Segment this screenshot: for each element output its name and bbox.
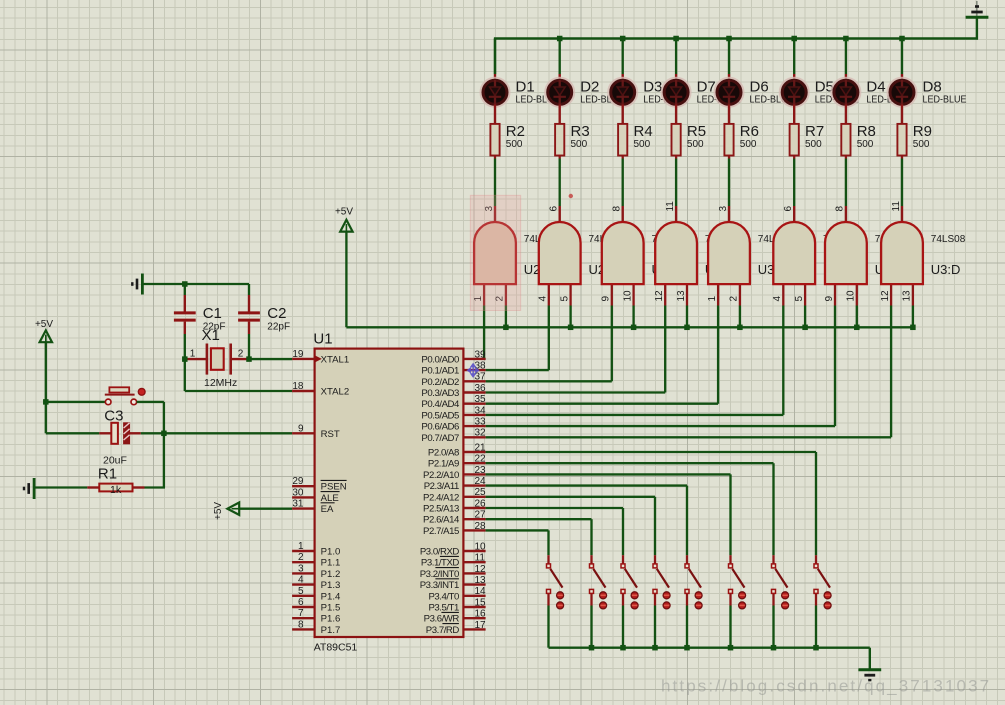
pin 26 stub (P2.5)	[463, 507, 485, 509]
label pin name PSEN	[321, 480, 347, 492]
svg-text:D4: D4	[866, 79, 885, 96]
svg-text:32: 32	[475, 428, 487, 439]
wire R8 to gate	[845, 156, 847, 207]
svg-text:EA: EA	[321, 504, 334, 515]
junction node input B col 5	[737, 325, 743, 331]
wire R3 to gate	[559, 156, 561, 207]
svg-text:23: 23	[475, 465, 487, 476]
wire XTAL2 net drop	[184, 359, 186, 391]
switch SW6	[729, 564, 745, 594]
svg-text:5: 5	[298, 586, 304, 597]
svg-text:6: 6	[298, 597, 304, 608]
svg-text:R4: R4	[634, 123, 653, 140]
junction node ground bus 5	[684, 645, 690, 651]
svg-text:R7: R7	[805, 123, 824, 140]
wire U3:A input A stub	[717, 284, 719, 306]
AND gate U2:D (74LS08)	[655, 222, 697, 284]
pin 22 stub (P2.1)	[463, 462, 485, 464]
svg-text:12: 12	[880, 290, 891, 302]
wire SW5 to ground bus	[686, 606, 688, 648]
svg-text:R8: R8	[857, 123, 876, 140]
label pin name P3.2/INT0	[420, 568, 459, 580]
wire U3:D input B to +5V bus	[912, 306, 914, 328]
wire RST to chip	[164, 432, 292, 434]
switch SW7 top pin	[772, 555, 774, 564]
svg-text:D2: D2	[580, 79, 599, 96]
wire top-right ground drop	[976, 17, 978, 39]
label pin name P3.3/INT1	[420, 579, 459, 591]
pin 14 stub (P3.4/T0)	[463, 595, 485, 597]
switch SW6 top pin	[729, 555, 731, 564]
svg-text:P2.1/A9: P2.1/A9	[428, 459, 459, 470]
svg-text:2: 2	[298, 552, 304, 563]
pin 6 stub (P1.5)	[292, 606, 315, 608]
svg-text:+5V: +5V	[35, 319, 53, 330]
svg-text:1: 1	[707, 296, 718, 302]
svg-text:5: 5	[794, 296, 805, 302]
wire D4 to R8	[845, 105, 847, 125]
junction node input B col 3	[631, 325, 637, 331]
ground (bottom right)	[858, 670, 881, 680]
wire SW2 bottom pin	[590, 594, 592, 606]
pin 37 stub (P0.2)	[463, 380, 485, 382]
wire gate U2 output pin stub	[675, 206, 677, 223]
pin 1 stub (P1.0)	[292, 550, 315, 552]
svg-text:500: 500	[571, 139, 588, 150]
resistor R2	[490, 124, 499, 156]
svg-text:6: 6	[783, 206, 794, 212]
wire P2.4 to switch 4	[486, 497, 655, 555]
switch SW1	[547, 564, 563, 594]
resistor R9	[897, 124, 906, 156]
svg-text:22pF: 22pF	[267, 322, 290, 333]
wire D3 to R4	[622, 105, 624, 125]
wire U2:B input A stub	[548, 284, 550, 306]
cursor (move icon)	[468, 364, 479, 377]
svg-text:R5: R5	[687, 123, 706, 140]
svg-text:P3.7/RD: P3.7/RD	[426, 625, 460, 636]
wire U2:A input B to +5V bus	[505, 306, 507, 328]
junction node LED bus col 5	[726, 36, 732, 42]
junction node LED bus col 3	[620, 36, 626, 42]
capacitor C2	[238, 313, 260, 320]
pin 2 stub (P1.1)	[292, 561, 315, 563]
switch SW3	[621, 564, 637, 594]
wire button to RST node	[137, 402, 164, 488]
svg-text:C2: C2	[267, 305, 286, 322]
svg-text:P2.4/A12: P2.4/A12	[423, 492, 459, 503]
svg-text:39: 39	[475, 349, 487, 360]
svg-text:D1: D1	[516, 79, 535, 96]
svg-text:3: 3	[298, 563, 304, 574]
wire +5V down	[45, 342, 47, 433]
actuator markers SW5	[695, 592, 702, 609]
svg-text:13: 13	[676, 290, 687, 302]
svg-text:33: 33	[475, 417, 487, 428]
svg-text:X1: X1	[202, 327, 220, 344]
wire SW6 bottom pin	[729, 594, 731, 606]
svg-text:https://blog.csdn.net/qq_37131: https://blog.csdn.net/qq_37131037	[661, 677, 991, 696]
svg-text:LED-BLUE: LED-BLUE	[923, 94, 967, 105]
wire ground to C1/C2 top	[142, 283, 249, 285]
svg-text:P1.4: P1.4	[321, 591, 341, 602]
LED D5	[780, 78, 809, 107]
svg-text:D7: D7	[697, 79, 716, 96]
AND gate U3:C (74LS08)	[825, 222, 867, 284]
svg-text:9: 9	[601, 296, 612, 302]
wire U2:C input B stub	[632, 284, 634, 306]
svg-text:6: 6	[549, 206, 560, 212]
switch SW4	[653, 564, 669, 594]
wire SW4 bottom pin	[654, 594, 656, 606]
wire bus to D7	[675, 39, 677, 81]
wire U3:D input A stub	[890, 284, 892, 306]
wire R5 to gate	[675, 156, 677, 207]
junction node C1 top	[182, 281, 188, 287]
pin 3 stub (P1.2)	[292, 572, 315, 574]
wire SW1 bottom pin	[547, 594, 549, 606]
wire gate U2 output pin stub	[559, 206, 561, 223]
wire P2.7 to switch 1	[486, 530, 549, 555]
wire U3:C input B stub	[856, 284, 858, 306]
pin 7 stub (P1.6)	[292, 617, 315, 619]
wire R9 to gate	[901, 156, 903, 207]
LED D4	[832, 78, 861, 107]
junction node LED bus col 4	[673, 36, 679, 42]
pin 18 stub (XTAL2)	[292, 390, 315, 392]
pushbutton RESET	[105, 387, 137, 404]
svg-text:P1.6: P1.6	[321, 614, 341, 625]
wire U3:B input A stub	[782, 284, 784, 306]
svg-text:P3.0/RXD: P3.0/RXD	[420, 547, 460, 558]
wire U3:B input B to +5V bus	[804, 306, 806, 328]
wire U2:D input B to +5V bus	[686, 306, 688, 328]
svg-text:29: 29	[292, 476, 304, 487]
pin 31 stub (EA)	[292, 507, 315, 509]
power +5V (gate bus)	[335, 206, 353, 231]
svg-text:12: 12	[475, 564, 487, 575]
pin 34 stub (P0.5)	[463, 414, 485, 416]
junction node button left	[43, 399, 49, 405]
wire U3:C input A stub	[834, 284, 836, 306]
svg-text:2: 2	[238, 349, 244, 360]
pin 30 stub (ALE)	[292, 496, 315, 498]
wire gate U3 output pin stub	[845, 206, 847, 223]
wire U2:D input B stub	[686, 284, 688, 306]
wire U2:B input B stub	[569, 284, 571, 306]
svg-text:P0.4/AD4: P0.4/AD4	[421, 399, 460, 410]
svg-text:U3:D: U3:D	[931, 262, 961, 277]
wire bus to D2	[559, 39, 561, 81]
wire gate U3 output pin stub	[728, 206, 730, 223]
svg-text:500: 500	[506, 139, 523, 150]
wire C2 bottom pin	[248, 322, 250, 360]
svg-text:36: 36	[475, 383, 487, 394]
svg-text:P0.2/AD2: P0.2/AD2	[421, 377, 459, 388]
junction node input B col 4	[684, 325, 690, 331]
LED D7	[662, 78, 691, 107]
svg-text:11: 11	[475, 553, 486, 564]
wire SW7 bottom pin	[772, 594, 774, 606]
pin 11 stub (P3.1/TXD)	[463, 561, 485, 563]
svg-text:XTAL2: XTAL2	[321, 387, 350, 398]
wire to XTAL2 pin	[185, 390, 292, 392]
pin 25 stub (P2.4)	[463, 496, 485, 498]
wire D7 to R5	[675, 105, 677, 125]
svg-text:13: 13	[902, 290, 913, 302]
pin 27 stub (P2.6)	[463, 518, 485, 520]
svg-text:P3.3/INT1: P3.3/INT1	[420, 580, 459, 591]
actuator markers SW7	[782, 592, 789, 609]
pin 24 stub (P2.3)	[463, 484, 485, 486]
svg-text:P2.0/A8: P2.0/A8	[428, 448, 459, 459]
svg-text:500: 500	[740, 139, 757, 150]
wire U3:C input B to +5V bus	[856, 306, 858, 328]
wire U3:C input A to P0.6	[486, 306, 835, 427]
junction node ground bus 4	[652, 645, 658, 651]
label pin name P3.6/WR	[424, 612, 460, 624]
junction node ground bus 8	[813, 645, 819, 651]
junction node input B col 8	[910, 325, 916, 331]
junction node LED bus col 7	[843, 36, 849, 42]
svg-text:P1.7: P1.7	[321, 625, 341, 636]
wire top bus left drop	[494, 39, 496, 75]
wire +5V drop to bus	[345, 232, 347, 328]
junction node ground bus 6	[728, 645, 734, 651]
svg-text:P0.6/AD6: P0.6/AD6	[421, 422, 459, 433]
svg-text:34: 34	[475, 405, 487, 416]
wire gate U2 output pin stub	[494, 206, 496, 223]
svg-text:1: 1	[298, 541, 304, 552]
capacitor C1	[174, 313, 196, 320]
ground (top right)	[966, 1, 989, 17]
AND gate U2:A (74LS08)	[474, 222, 516, 284]
resistor R8	[841, 124, 850, 156]
wire SW1 to ground bus	[547, 606, 549, 648]
svg-text:35: 35	[475, 394, 487, 405]
svg-text:8: 8	[835, 206, 846, 212]
wire gate U3 output pin stub	[901, 206, 903, 223]
pin 16 stub (P3.6/WR)	[463, 617, 485, 619]
wire R4 to gate	[622, 156, 624, 207]
wire D5 to R7	[793, 105, 795, 125]
svg-text:8: 8	[612, 206, 623, 212]
pin 12 stub (P3.2/INT0)	[463, 572, 485, 574]
AND gate U3:A (74LS08)	[708, 222, 750, 284]
actuator markers SW2	[600, 592, 607, 609]
ground (left, near C1)	[132, 274, 142, 295]
switch SW8	[814, 564, 830, 594]
label pin name ALE	[321, 492, 340, 504]
wire top LED bus	[494, 37, 978, 39]
power +5V (EA)	[213, 502, 239, 520]
wire ground bus drop	[869, 648, 871, 670]
pin 19 stub (XTAL1)	[292, 358, 315, 360]
svg-text:7: 7	[298, 608, 304, 619]
svg-text:12MHz: 12MHz	[204, 377, 237, 389]
AND gate U3:B (74LS08)	[773, 222, 815, 284]
pin 39 stub (P0.0)	[463, 358, 485, 360]
switch SW4 top pin	[654, 555, 656, 564]
junction node ground bus 2	[589, 645, 595, 651]
svg-text:R9: R9	[913, 123, 932, 140]
wire U3:D input A to P0.7	[486, 306, 891, 438]
wire U2:A input A to P0.0	[484, 306, 486, 359]
wire U3:D input B stub	[912, 284, 914, 306]
pin 28 stub (P2.7)	[463, 529, 485, 531]
wire C3 to RST junction	[141, 432, 164, 434]
pin 8 stub (P1.7)	[292, 628, 315, 630]
wire R6 to gate	[728, 156, 730, 207]
wire bus to D6	[728, 39, 730, 81]
svg-text:1k: 1k	[110, 484, 122, 496]
resistor R1 (1k)	[87, 484, 144, 492]
junction node input B col 2	[568, 325, 574, 331]
wire X1 pin2 to XTAL1	[249, 358, 292, 360]
wire +5V to EA	[239, 508, 292, 510]
LED D8	[888, 78, 917, 107]
actuator marker (red) on button	[138, 388, 145, 395]
svg-text:10: 10	[622, 290, 633, 302]
wire bus to D3	[622, 39, 624, 81]
svg-text:22: 22	[475, 454, 487, 465]
pin 17 stub (P3.7/RD)	[463, 628, 485, 630]
svg-text:P2.2/A10: P2.2/A10	[423, 470, 459, 481]
pin 5 stub (P1.4)	[292, 595, 315, 597]
svg-text:4: 4	[298, 575, 304, 586]
svg-text:P0.7/AD7: P0.7/AD7	[421, 433, 459, 444]
resistor R6	[724, 124, 733, 156]
selection highlight on gate U2:A	[470, 195, 520, 310]
wire C2 top pin	[248, 284, 250, 312]
svg-text:1: 1	[190, 349, 196, 360]
svg-text:500: 500	[857, 139, 874, 150]
svg-text:16: 16	[475, 609, 487, 620]
pin 32 stub (P0.7)	[463, 436, 485, 438]
op-chip U1 body (AT89C51)	[315, 349, 464, 637]
svg-text:24: 24	[475, 476, 487, 487]
svg-text:R1: R1	[98, 466, 117, 483]
wire C1 top pin	[184, 284, 186, 312]
svg-text:P3.4/T0: P3.4/T0	[428, 591, 459, 602]
svg-text:+5V: +5V	[335, 206, 353, 217]
wire bus to D5	[793, 39, 795, 81]
AND gate U2:C (74LS08)	[602, 222, 644, 284]
svg-text:11: 11	[665, 201, 676, 212]
svg-text:P1.2: P1.2	[321, 569, 341, 580]
wire R2 to gate	[494, 156, 496, 207]
wire SW3 bottom pin	[622, 594, 624, 606]
resistor R7	[790, 124, 799, 156]
svg-text:12: 12	[654, 290, 665, 302]
svg-text:U1: U1	[313, 331, 332, 348]
pin 10 stub (P3.0/RXD)	[463, 550, 485, 552]
label pin name P3.7/RD	[426, 624, 460, 636]
label pin name EA	[321, 503, 335, 515]
svg-text:P0.0/AD0: P0.0/AD0	[421, 354, 459, 365]
junction node ground bus 7	[771, 645, 777, 651]
wire +5V to C3	[46, 432, 100, 434]
wire D8 to R9	[901, 105, 903, 125]
svg-text:D8: D8	[923, 79, 942, 96]
svg-text:P0.1/AD1: P0.1/AD1	[421, 366, 459, 377]
power +5V (reset)	[35, 319, 53, 342]
pin 15 stub (P3.5/T1)	[463, 606, 485, 608]
svg-text:P1.0: P1.0	[321, 547, 341, 558]
wire U2:D input A to P0.3	[486, 306, 666, 393]
resistor R4	[618, 124, 627, 156]
pin 38 stub (P0.1)	[463, 369, 485, 371]
wire SW5 bottom pin	[686, 594, 688, 606]
wire U2:C input A to P0.2	[486, 306, 612, 382]
svg-text:AT89C51: AT89C51	[314, 641, 358, 653]
wire SW3 to ground bus	[622, 606, 624, 648]
svg-text:P2.5/A13: P2.5/A13	[423, 504, 459, 515]
wire bus to D4	[845, 39, 847, 81]
svg-text:18: 18	[292, 381, 304, 392]
svg-text:2: 2	[729, 296, 740, 302]
svg-text:13: 13	[475, 575, 487, 586]
wire U3:A input A to P0.4	[486, 306, 718, 404]
pin 36 stub (P0.3)	[463, 391, 485, 393]
svg-text:17: 17	[475, 620, 487, 631]
svg-text:5: 5	[559, 296, 570, 302]
wire P2.6 to switch 2	[486, 519, 592, 555]
svg-text:500: 500	[634, 139, 651, 150]
wire R1 to RST net	[145, 486, 166, 488]
wire gate U3 output pin stub	[793, 206, 795, 223]
LED D1	[481, 78, 510, 107]
wire switch ground bus	[549, 647, 870, 649]
switch SW2	[590, 564, 606, 594]
svg-text:C1: C1	[203, 305, 222, 322]
wire U3:B input A to P0.5	[486, 306, 784, 415]
svg-text:10: 10	[846, 290, 857, 302]
wire D1 to R2	[494, 105, 496, 125]
pin 9 stub (RST)	[292, 432, 315, 434]
wire to button	[46, 401, 106, 403]
wire U2:D input A stub	[664, 284, 666, 306]
svg-text:R6: R6	[740, 123, 759, 140]
svg-text:3: 3	[718, 206, 729, 212]
svg-text:P0.5/AD5: P0.5/AD5	[421, 410, 459, 421]
junction node XTAL2 net	[182, 356, 188, 362]
switch SW3 top pin	[622, 555, 624, 564]
wire R7 to gate	[793, 156, 795, 207]
wire U2:A input B stub	[505, 284, 507, 306]
switch SW5 top pin	[686, 555, 688, 564]
pin 21 stub (P2.0)	[463, 451, 485, 453]
wire P2.0 to switch 8	[486, 452, 816, 555]
wire U2:B input B to +5V bus	[569, 306, 571, 328]
junction node input B col 7	[854, 325, 860, 331]
wire C1 bottom pin	[184, 322, 186, 360]
actuator markers SW4	[663, 592, 670, 609]
wire ground to R1	[34, 486, 87, 488]
pin 29 stub (PSEN)	[292, 485, 315, 487]
svg-text:30: 30	[292, 487, 304, 498]
svg-text:P1.3: P1.3	[321, 580, 341, 591]
AND gate U3:D (74LS08)	[881, 222, 923, 284]
svg-text:P1.1: P1.1	[321, 558, 341, 569]
capacitor C3 (20uF)	[99, 423, 141, 444]
wire D6 to R6	[728, 105, 730, 125]
wire SW7 to ground bus	[772, 606, 774, 648]
switch SW2 top pin	[590, 555, 592, 564]
wire U2:C input A stub	[611, 284, 613, 306]
svg-text:XTAL1: XTAL1	[321, 354, 350, 365]
switch SW8 top pin	[815, 555, 817, 564]
